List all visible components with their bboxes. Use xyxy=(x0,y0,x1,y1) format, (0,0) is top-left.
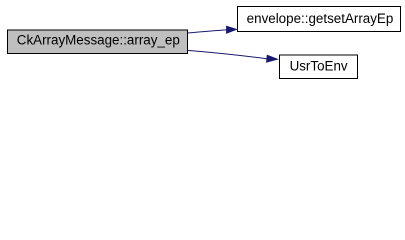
edge CkArrayMessage::array_ep -> envelope::getsetArrayEp xyxy=(188,26,237,33)
svg-text:UsrToEnv: UsrToEnv xyxy=(290,58,348,73)
svg-text:CkArrayMessage::array_ep: CkArrayMessage::array_ep xyxy=(17,32,180,47)
node CkArrayMessage::array_ep xyxy=(8,30,188,54)
edge CkArrayMessage::array_ep -> UsrToEnv xyxy=(188,50,278,62)
svg-text:envelope::getsetArrayEp: envelope::getsetArrayEp xyxy=(247,11,394,26)
node envelope::getsetArrayEp xyxy=(238,7,401,32)
arrowhead xyxy=(267,55,278,62)
arrowhead xyxy=(227,26,237,33)
node UsrToEnv xyxy=(280,55,358,79)
